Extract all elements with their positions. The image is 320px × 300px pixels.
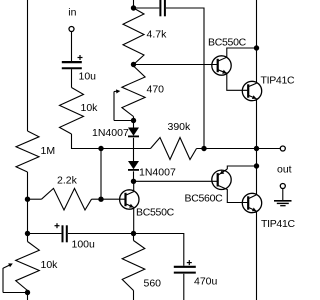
wire <box>133 121 135 128</box>
svg-text:10k: 10k <box>41 259 59 271</box>
label 470u <box>194 276 218 288</box>
wire <box>134 7 160 9</box>
diode D2 1N4007 <box>128 161 139 170</box>
svg-text:10k: 10k <box>81 102 99 114</box>
node junction <box>131 62 136 67</box>
node junction <box>254 45 259 50</box>
node junction <box>131 179 136 184</box>
node junction <box>25 290 30 295</box>
wire <box>133 291 135 300</box>
transistor Q1 collector <box>218 48 257 61</box>
capacitor C 10u <box>62 55 83 68</box>
label 10k <box>41 259 59 271</box>
wire <box>27 172 29 242</box>
svg-text:1N4007: 1N4007 <box>139 167 176 179</box>
label 100u <box>72 239 96 251</box>
wire <box>68 234 184 266</box>
wire <box>134 64 217 66</box>
node junction <box>254 146 259 151</box>
label in <box>68 7 76 19</box>
svg-text:2.2k: 2.2k <box>57 175 78 187</box>
terminal in <box>69 27 74 32</box>
wire <box>133 171 135 181</box>
label BC560C <box>185 193 224 205</box>
wire <box>183 274 185 300</box>
node junction <box>201 146 206 151</box>
transistor Q3 collector <box>126 181 134 195</box>
svg-text:out: out <box>277 163 292 175</box>
wire <box>282 189 284 201</box>
potentiometer R 10k <box>16 242 40 291</box>
wire <box>256 99 258 195</box>
potentiometer wiper arrow <box>3 263 13 292</box>
transistor Q2 emitter <box>248 95 256 99</box>
transistor Q1 BC550C <box>212 56 231 75</box>
node junction <box>254 163 259 168</box>
wire <box>100 149 102 200</box>
terminal gnd <box>280 184 285 189</box>
ground <box>274 201 292 206</box>
svg-text:1M: 1M <box>41 145 56 157</box>
label out <box>277 163 292 175</box>
node junction <box>98 146 103 151</box>
diode D1 1N4007 <box>128 128 139 137</box>
label 2.2k <box>57 175 78 187</box>
resistor R 390k <box>151 138 197 160</box>
wire <box>197 148 281 150</box>
resistor R 10k input <box>60 88 84 135</box>
capacitor C bootstrap <box>160 0 165 16</box>
wire <box>166 8 204 149</box>
label 1N4007 <box>139 167 176 179</box>
label TIP41C <box>261 75 296 87</box>
node junction <box>131 5 136 10</box>
transistor Q5 TIP41C <box>242 193 261 212</box>
svg-text:in: in <box>68 7 76 19</box>
wire <box>133 234 135 241</box>
node junction <box>25 231 30 236</box>
transistor Q4 collector <box>218 185 248 202</box>
wire <box>27 0 29 131</box>
svg-text:4.7k: 4.7k <box>147 29 168 41</box>
wire <box>133 0 135 8</box>
wire <box>71 32 73 62</box>
transistor Q1 emitter <box>218 70 248 91</box>
label 10k <box>81 102 99 114</box>
transistor Q4 BC560C <box>212 170 231 189</box>
svg-text:100u: 100u <box>72 239 96 251</box>
transistor Q2 TIP41C <box>242 81 261 100</box>
terminal out <box>280 146 285 151</box>
label BC550C <box>208 36 247 48</box>
label 1M <box>41 145 56 157</box>
svg-text:560: 560 <box>144 278 162 290</box>
label 390k <box>168 121 192 133</box>
wire <box>28 198 42 200</box>
wire <box>133 138 135 161</box>
label 470 <box>147 84 165 96</box>
node junction <box>131 231 136 236</box>
svg-text:TIP41C: TIP41C <box>261 75 296 87</box>
wire <box>256 0 258 83</box>
resistor R 1M <box>16 131 39 172</box>
capacitor C 100u <box>55 223 67 242</box>
transistor Q3 BC550C <box>120 190 139 209</box>
label BC550C <box>136 207 175 219</box>
resistor R 470 <box>122 66 145 117</box>
svg-text:1N4007: 1N4007 <box>92 127 129 139</box>
label 10u <box>79 71 97 83</box>
resistor R 4.7k <box>123 8 144 65</box>
wire <box>133 117 135 121</box>
node junction <box>131 118 136 123</box>
label 4.7k <box>147 29 168 41</box>
svg-text:470u: 470u <box>194 276 218 288</box>
wire <box>92 198 126 200</box>
resistor R 560 <box>122 241 145 291</box>
svg-text:BC550C: BC550C <box>136 207 175 219</box>
wire <box>71 69 73 87</box>
label TIP41C <box>261 218 296 230</box>
svg-text:390k: 390k <box>168 121 192 133</box>
transistor Q5 emitter <box>248 207 256 211</box>
transistor Q2 collector <box>248 83 256 87</box>
wire <box>134 180 218 182</box>
rheostat wiper arrow 470 <box>114 89 134 120</box>
svg-text:BC550C: BC550C <box>208 36 247 48</box>
label 560 <box>144 278 162 290</box>
capacitor C 470u <box>174 260 196 273</box>
wire <box>256 211 258 300</box>
svg-text:470: 470 <box>147 84 165 96</box>
wire <box>27 291 29 300</box>
svg-text:TIP41C: TIP41C <box>261 218 296 230</box>
resistor R 2.2k <box>42 188 92 210</box>
node junction <box>98 197 103 202</box>
node junction <box>25 197 30 202</box>
transistor Q3 emitter <box>126 204 134 234</box>
wire <box>72 134 151 149</box>
transistor Q5 collector <box>248 195 256 199</box>
wire <box>28 233 62 235</box>
label 1N4007 <box>92 127 129 139</box>
transistor Q4 emitter <box>218 166 257 175</box>
wire <box>3 292 28 294</box>
svg-text:BC560C: BC560C <box>185 193 224 205</box>
svg-text:10u: 10u <box>79 71 97 83</box>
